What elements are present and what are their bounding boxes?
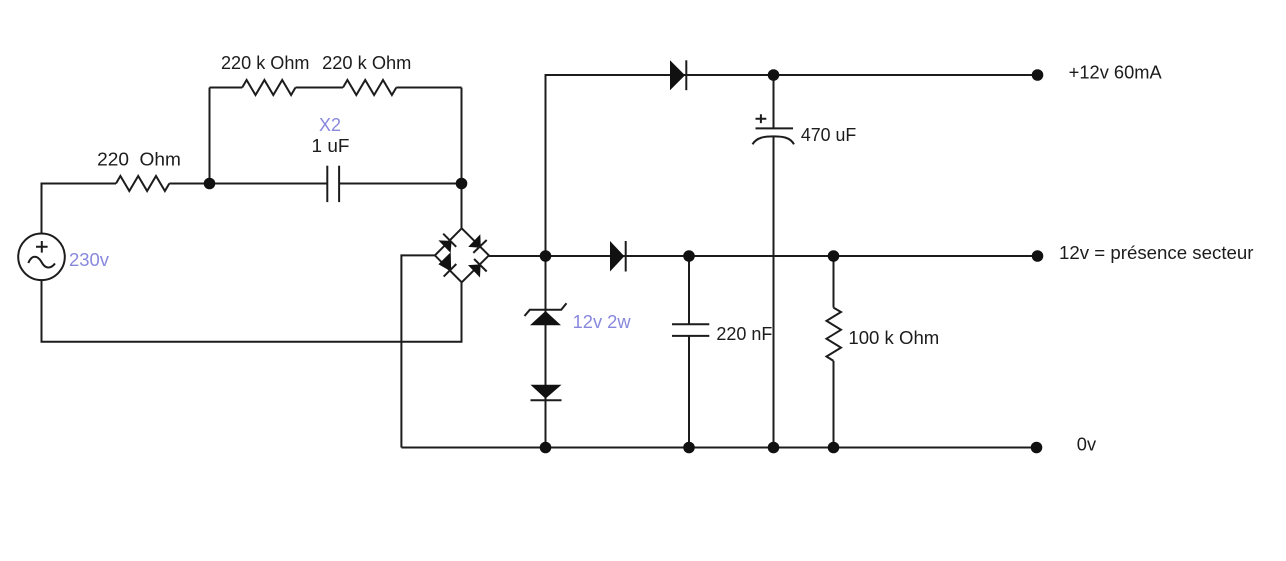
wire 220nF top (688, 256, 690, 324)
resistor R3 220 k Ohm zigzag (343, 80, 396, 95)
svg-text:12v 2w: 12v 2w (573, 312, 632, 332)
wire bridge left vertex to left drop (401, 255, 435, 447)
wire AC source bottom return (42, 280, 462, 342)
diode D5 bar (685, 60, 687, 90)
capacitor C2 220nF top plate (672, 323, 709, 325)
terminal dot 0v (1031, 442, 1043, 454)
middle rail 12v (489, 255, 1038, 257)
svg-text:220 k Ohm: 220 k Ohm (322, 53, 411, 73)
junction dot 100k top (828, 250, 840, 262)
bottom rail 0v (401, 447, 1037, 449)
bridge diamond sides (435, 228, 489, 282)
svg-text:+12v 60mA: +12v 60mA (1069, 63, 1162, 83)
junction dot 470uF bottom (768, 442, 780, 454)
junction dot middle rail / zener (540, 250, 552, 262)
svg-text:0v: 0v (1077, 435, 1096, 455)
svg-text:220 k Ohm: 220 k Ohm (221, 53, 310, 73)
resistor R2 220 k Ohm zigzag (242, 80, 295, 95)
bridge diode D1 top-left arm (points to top vertex) (438, 240, 451, 253)
wire 470uF bottom (773, 136, 775, 447)
svg-text:470 uF: 470 uF (801, 125, 856, 145)
wire 220nF bottom (688, 336, 690, 448)
wire 100k bottom (833, 361, 835, 448)
diode D6 triangle (531, 385, 562, 399)
wire node B down to bridge top vertex (461, 88, 463, 229)
capacitor C1 470uF top plate (756, 127, 794, 129)
wire resistor R1 to node A (169, 183, 327, 185)
capacitor C1 470uF curved plate (753, 136, 795, 144)
junction node A dot (204, 178, 216, 190)
zener ZD1 triangle (530, 311, 561, 325)
bridge diode D3 bottom-left arm (points to bottom vertex) (438, 252, 451, 271)
svg-text:X2: X2 (319, 115, 341, 135)
resistor R1 220 Ohm zigzag (116, 176, 169, 191)
wire zener branch vertical (545, 256, 547, 448)
junction dot 470uF top (768, 69, 780, 81)
junction dot zener bottom (540, 442, 552, 454)
AC source plus sign (36, 241, 48, 253)
terminal dot +12v (1032, 69, 1044, 81)
junction node B dot (456, 178, 468, 190)
bridge diode D4 bottom-right arm (points to right vertex) (468, 264, 481, 277)
AC source V1 circle (18, 233, 65, 280)
junction dot 220nF bottom (683, 442, 695, 454)
resistor R4 100 k Ohm zigzag (827, 308, 842, 361)
terminal dot 12v (1032, 250, 1044, 262)
capacitor X2 1uF left plate (326, 166, 328, 202)
capacitor X2 1uF right plate (338, 166, 340, 202)
wire cap right plate to node B (339, 183, 461, 185)
diode D7 middle rail triangle (610, 241, 624, 272)
diode D6 bar (531, 399, 562, 401)
svg-text:12v = présence secteur: 12v = présence secteur (1059, 243, 1254, 263)
wire 100k top (833, 256, 835, 308)
diode D7 bar (625, 241, 627, 272)
svg-text:220 nF: 220 nF (716, 324, 772, 344)
wire node A up to 220k branch (209, 88, 211, 184)
svg-text:100 k Ohm: 100 k Ohm (848, 328, 939, 348)
wire 470uF top (773, 75, 775, 128)
wire between 220k resistors (296, 87, 344, 89)
wire top branch right (396, 87, 461, 89)
junction dot 220nF top (683, 250, 695, 262)
wire top branch left (210, 87, 243, 89)
AC source sine wave (28, 257, 55, 268)
svg-text:1 uF: 1 uF (312, 136, 350, 156)
zener ZD1 cathode bar with hooks (525, 303, 567, 316)
capacitor C1 plus sign (756, 114, 767, 123)
junction dot 100k bottom (828, 442, 840, 454)
wire AC source top to 220 Ohm resistor (42, 184, 117, 235)
capacitor C2 220nF bottom plate (672, 335, 709, 337)
wire junction up to top rail (546, 75, 1038, 256)
bridge diode D2 top-right arm (points to right vertex) (468, 234, 481, 248)
svg-text:230v: 230v (69, 250, 109, 270)
svg-text:220 Ohm: 220 Ohm (97, 150, 181, 170)
diode D5 top rail triangle (670, 60, 685, 90)
